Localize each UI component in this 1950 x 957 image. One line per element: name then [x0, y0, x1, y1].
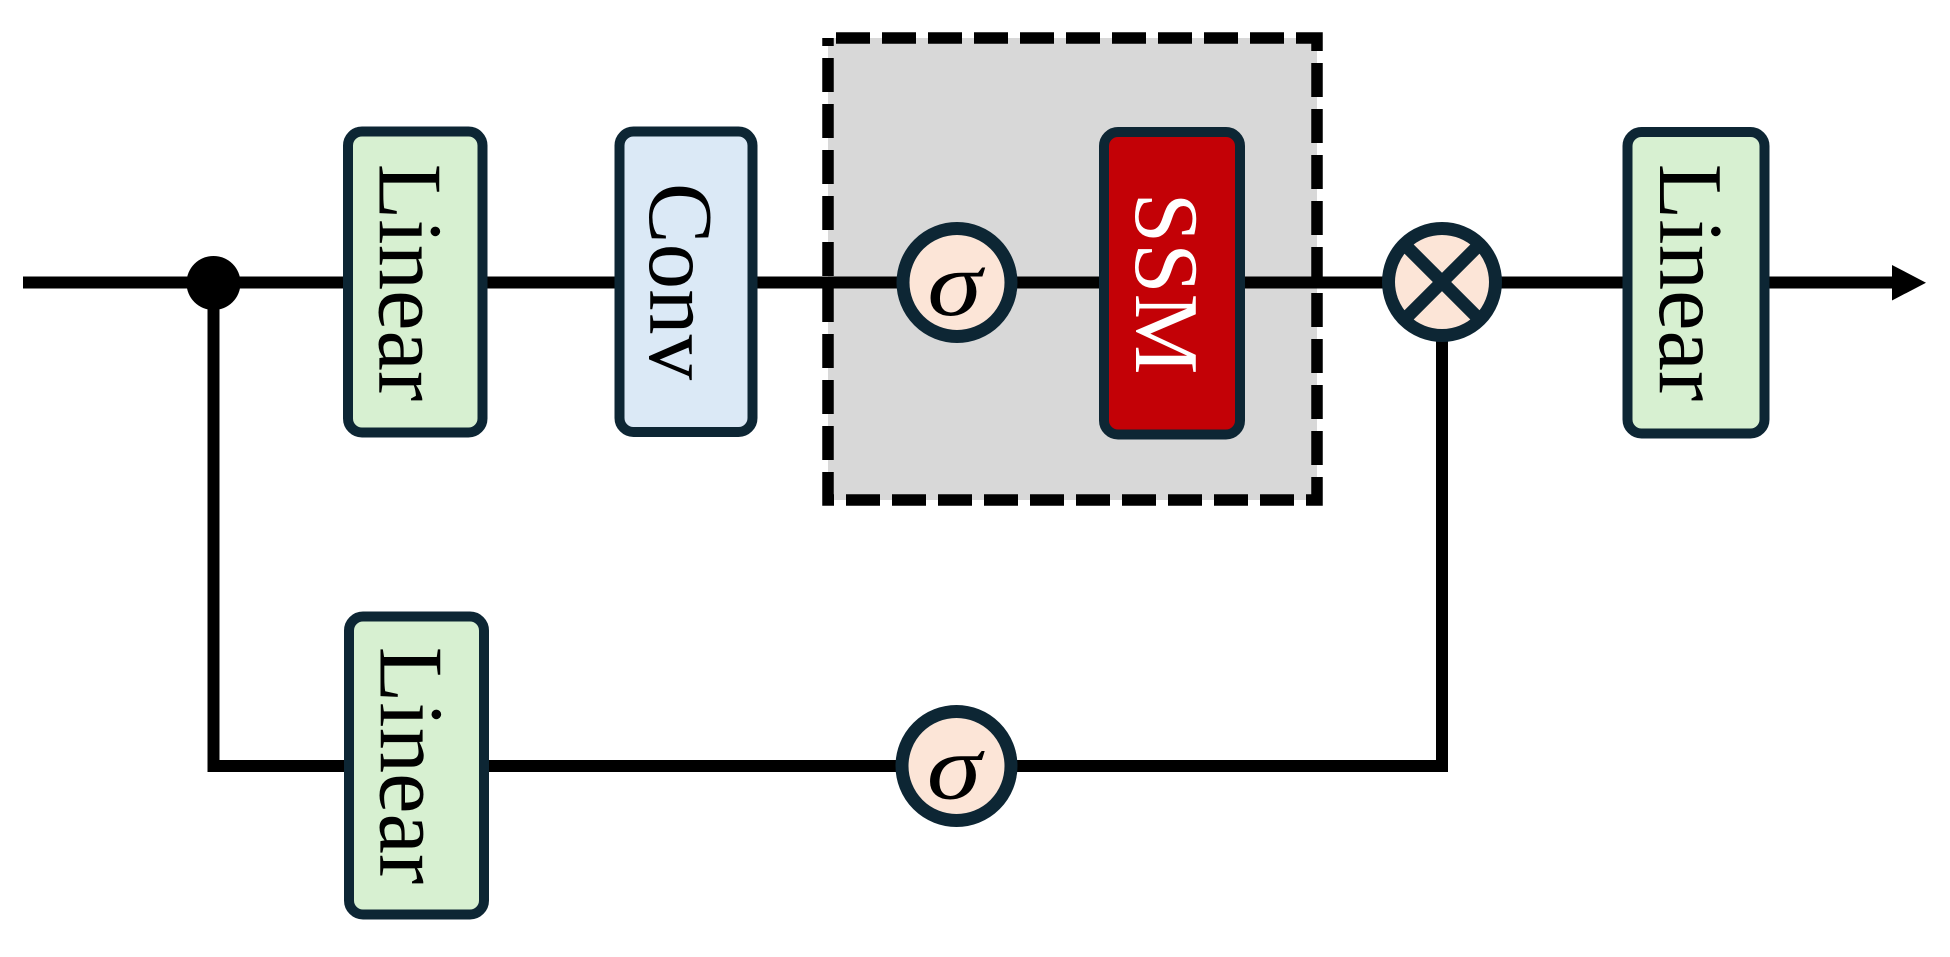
- svg-text:σ: σ: [927, 233, 986, 335]
- dashed SSM-group box: [828, 38, 1317, 500]
- wire bottom horizontal: [208, 760, 1449, 772]
- node junction dot: [187, 256, 241, 310]
- wire right vertical: [1436, 282, 1448, 772]
- box Linear (bottom): [349, 617, 484, 915]
- multiply circle: [1389, 229, 1496, 336]
- svg-text:σ: σ: [927, 716, 986, 818]
- sigma circle (bottom): [902, 712, 1011, 821]
- box SSM: [1104, 132, 1240, 435]
- svg-text:Conv: Conv: [630, 183, 731, 381]
- svg-text:Linear: Linear: [1640, 164, 1741, 401]
- svg-text:Linear: Linear: [360, 164, 461, 401]
- box Linear (top-right): [1628, 132, 1765, 434]
- svg-text:Linear: Linear: [361, 647, 462, 884]
- wire main horizontal: [23, 277, 1900, 289]
- sigma circle (top): [903, 229, 1011, 337]
- box Linear (top-left): [348, 132, 483, 433]
- svg-text:SSM: SSM: [1116, 192, 1217, 374]
- output arrowhead: [1892, 265, 1926, 301]
- box Conv: [620, 132, 753, 433]
- wire left vertical: [208, 280, 220, 772]
